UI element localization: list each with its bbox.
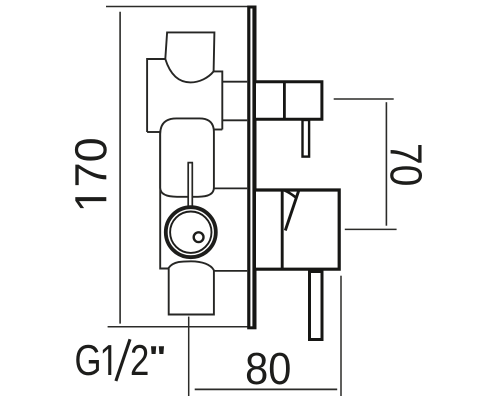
body neck step left	[147, 131, 160, 133]
knob stem	[187, 163, 193, 209]
lever stem	[310, 272, 323, 340]
fillet arc under top port	[165, 59, 213, 82]
connector lever lower line	[214, 270, 247, 272]
body face panel left edge and bottom	[160, 132, 169, 269]
outlet port bottom G1/2	[169, 261, 214, 314]
extension line right of lever	[340, 276, 342, 396]
knob ring inner	[170, 212, 211, 253]
wall plate	[247, 6, 256, 330]
body upper block with top port G1/2	[147, 32, 222, 132]
label G1/2" part G1	[76, 345, 111, 376]
dimension extension line top (plate top)	[106, 6, 251, 8]
lever neck arc	[284, 190, 295, 197]
dimension line 80	[195, 388, 338, 390]
label G1/2" part 2	[132, 345, 148, 375]
70 dimension bottom tick	[345, 228, 397, 230]
label G1/2" slash	[116, 339, 130, 381]
label 80	[247, 353, 290, 385]
dimension line 170 vertical	[119, 12, 121, 324]
70 dimension vertical	[385, 102, 387, 226]
dimension extension line bottom (plate bottom)	[108, 326, 248, 328]
body neck step right	[214, 129, 222, 131]
knob button small circle	[194, 232, 204, 242]
connector lever upper line	[214, 187, 247, 189]
centerline below outlet	[188, 317, 190, 396]
top handle (diverter)	[256, 82, 322, 120]
top handle stem	[303, 120, 310, 157]
lever diagonal	[285, 191, 298, 231]
cartridge housing	[160, 118, 214, 196]
70 dimension top tick	[334, 98, 394, 100]
lever flange divider	[281, 190, 284, 269]
connector top handle upper line	[222, 81, 247, 83]
label 170	[75, 139, 107, 208]
label 70	[390, 145, 422, 185]
lever handle body	[256, 190, 339, 269]
top handle divider	[283, 82, 286, 120]
connector top handle lower line	[222, 119, 247, 121]
knob ring outer	[166, 207, 216, 257]
label G1/2" quote ticks	[151, 346, 164, 354]
